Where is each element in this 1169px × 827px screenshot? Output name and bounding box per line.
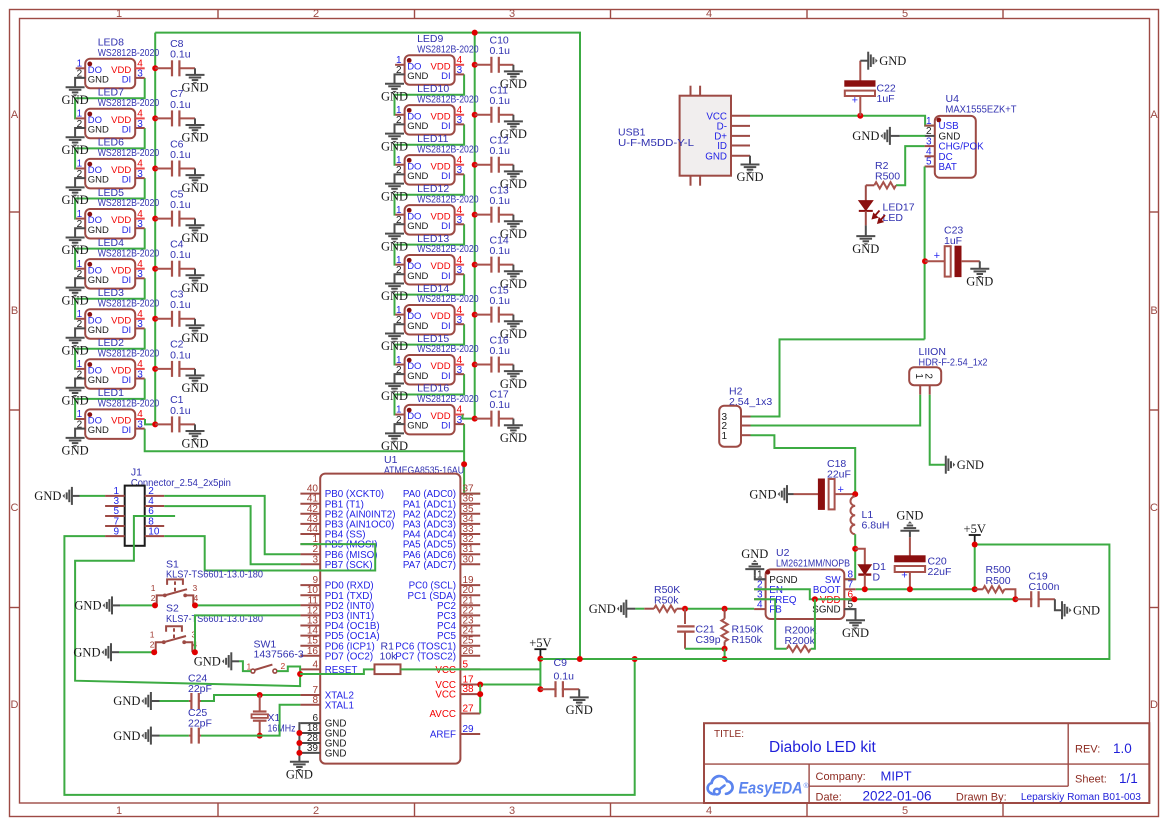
LED LED8 WS2812B-2020 [76,37,160,89]
wire +5V to VCC rows [539,659,541,690]
svg-text:GND: GND [62,444,89,458]
ground for LED17 [865,225,867,236]
junction [472,62,478,68]
ground [113,692,151,710]
svg-text:2: 2 [281,661,286,671]
svg-text:C100n: C100n [1029,581,1060,593]
svg-text:GND: GND [407,421,428,432]
wire VDD top bus [155,33,580,659]
svg-text:GND: GND [407,271,428,282]
junction [472,312,478,318]
svg-text:3: 3 [457,215,463,226]
LED LED14 WS2812B-2020 [395,283,479,335]
wire U1 GND pins to ground [299,723,300,762]
ground [842,620,869,640]
svg-text:1: 1 [913,373,924,379]
LED LED10 WS2812B-2020 [395,83,479,135]
wire pin2 to ground [395,374,405,383]
svg-text:4: 4 [706,805,712,817]
ground [62,338,89,358]
svg-text:A: A [11,109,19,121]
wire gnd to C25 [160,735,189,737]
wire VDD bus middle column [474,33,476,419]
capacitor C9 0.1u [540,657,579,697]
junction [472,416,478,422]
wire cap to ground [194,424,196,431]
ground [500,371,527,391]
svg-text:AVCC: AVCC [430,709,457,720]
wire cap to ground [512,215,514,222]
svg-text:3: 3 [457,65,463,76]
svg-text:DI: DI [122,175,132,186]
junction [152,216,158,222]
ground [741,547,768,576]
wire S2 to PD3 [195,615,301,652]
junction [852,491,858,497]
IC U2 LM2621MM/NOPB [754,547,856,619]
svg-text:0.1u: 0.1u [170,249,191,261]
junction [722,646,728,652]
svg-text:GND: GND [381,289,408,303]
wire R50K to FB [685,608,754,610]
svg-text:GND: GND [381,439,408,453]
capacitor C5 0.1u [155,188,195,226]
junction [722,656,728,662]
ground [500,271,527,291]
svg-text:Date:: Date: [816,791,842,803]
svg-text:GND: GND [381,239,408,253]
junction [151,649,157,655]
svg-text:GND: GND [88,175,109,186]
ground [181,375,208,395]
LED LED16 WS2812B-2020 [395,383,479,435]
svg-text:GND: GND [88,75,109,86]
capacitor C14 0.1u [475,234,514,272]
svg-text:29: 29 [463,724,475,735]
svg-text:WS2812B-2020: WS2812B-2020 [98,147,160,159]
svg-text:2: 2 [313,805,319,817]
diode D1 [855,549,886,590]
svg-text:0.1u: 0.1u [490,145,511,157]
svg-text:6.8uH: 6.8uH [862,520,890,532]
junction [537,656,543,662]
wire C21 bottom [685,648,725,650]
junction [812,596,818,602]
svg-text:+: + [852,95,858,107]
capacitor C7 0.1u [155,88,195,126]
wire DI chain [395,124,465,164]
wire C25 to XTAL1 [201,705,300,736]
svg-text:GND: GND [88,125,109,136]
wire DI chain [395,174,465,214]
IC U4 MAX1555EZK+T [925,93,1017,178]
junction [152,266,158,272]
resistor R2 R500 [866,160,900,189]
svg-text:8: 8 [312,695,318,706]
wire gnd to S1 [120,604,157,606]
ground [181,431,208,451]
svg-text:VCC: VCC [435,690,456,701]
svg-text:DI: DI [441,221,451,232]
svg-text:0.1u: 0.1u [554,671,575,683]
svg-text:WS2812B-2020: WS2812B-2020 [98,97,160,109]
svg-text:DI: DI [441,271,451,282]
svg-text:GND: GND [181,437,208,451]
junction [857,113,863,119]
ground [852,236,879,256]
svg-text:GND: GND [73,645,100,659]
svg-text:3: 3 [137,219,143,230]
svg-text:GND: GND [181,231,208,245]
ground [500,71,527,91]
junction [851,596,857,602]
ground [181,75,208,95]
wire pin2 to ground [395,74,405,83]
svg-text:B: B [1150,305,1157,317]
svg-text:10k: 10k [380,651,398,663]
junction [1012,596,1018,602]
svg-text:0.1u: 0.1u [170,199,191,211]
capacitor C16 0.1u [475,334,514,372]
svg-text:3: 3 [457,315,463,326]
svg-text:3: 3 [137,69,143,80]
junction [296,740,302,746]
wire pin2 to ground [75,228,85,237]
ground for C18 [787,493,794,495]
svg-text:Diabolo LED kit: Diabolo LED kit [769,739,877,756]
ground [194,652,232,670]
svg-text:3: 3 [137,319,143,330]
wire pin2 to ground [395,174,405,183]
ground [381,383,408,403]
svg-text:R500: R500 [986,575,1011,587]
wire +5V loop [540,545,1110,660]
svg-text:3: 3 [137,369,143,380]
wire J1 pin10 to PB5 [164,536,375,570]
ground [566,697,593,717]
svg-text:GND: GND [381,389,408,403]
LED LED6 WS2812B-2020 [76,137,160,189]
ground for C19 [1055,599,1062,610]
svg-text:1437566-3: 1437566-3 [254,649,304,661]
ground [73,643,111,661]
svg-text:D: D [11,699,19,711]
wire RESET net to R1 [300,669,374,674]
connector USB1 U-F-M5DD-Y-L [618,86,750,186]
wire cap to ground [194,369,196,376]
svg-text:U-F-M5DD-Y-L: U-F-M5DD-Y-L [618,137,694,149]
wire U4 CHG to R2 [896,146,925,185]
svg-text:MAX1555EZK+T: MAX1555EZK+T [946,103,1018,115]
junction [577,656,583,662]
ground [589,600,627,618]
ground [500,171,527,191]
svg-text:D: D [873,572,881,584]
ground [381,184,408,204]
junction [152,421,158,427]
ground for C23 [979,261,981,268]
switch S2 KLS7-TS6601-13.0-180 [150,603,263,653]
ground [62,237,89,257]
svg-text:0.1u: 0.1u [490,45,511,57]
junction [922,258,928,264]
wire cap to ground [194,118,196,125]
svg-text:GND: GND [181,181,208,195]
switch body [150,626,198,652]
ground [868,52,906,70]
svg-text:PD7 (OC2): PD7 (OC2) [325,651,373,662]
wire pin2 to ground [395,124,405,133]
IC U1 pins [300,484,480,760]
capacitor C22 1uF polarized [845,61,896,116]
svg-text:WS2812B-2020: WS2812B-2020 [98,47,160,59]
wire DI chain [395,74,465,114]
svg-text:5: 5 [926,157,932,168]
svg-text:10: 10 [148,526,160,537]
svg-text:WS2812B-2020: WS2812B-2020 [98,348,160,360]
ground [181,325,208,345]
svg-text:GND: GND [181,331,208,345]
wire DI chain [395,224,465,264]
wire L1 to SW [844,534,855,579]
svg-text:Connector_2.54_2x5pin: Connector_2.54_2x5pin [131,477,231,489]
inductor L1 6.8uH [850,496,889,534]
wire J1 pin9 to +5V rail [64,536,634,795]
svg-text:WS2812B-2020: WS2812B-2020 [417,393,479,405]
svg-text:0.1u: 0.1u [170,49,191,61]
wire DI chain [75,78,145,119]
svg-text:GND: GND [113,694,140,708]
capacitor C12 0.1u [475,135,514,173]
svg-text:DI: DI [122,275,132,286]
wire R1 to VCC [401,668,541,670]
svg-text:GND: GND [88,275,109,286]
wire VCC17 row [480,684,540,686]
wire cap to ground [512,115,514,122]
wire gnd to J1 pin1 [80,495,106,497]
svg-text:GND: GND [957,458,984,472]
svg-text:GND: GND [741,547,768,561]
svg-text:GND: GND [88,375,109,386]
wire USB GND pin to ground [749,156,751,165]
svg-text:GND: GND [407,221,428,232]
wire LIION pin1 to H2 pin2 [751,395,921,426]
ground for U2 SGND [844,609,855,620]
svg-text:1uF: 1uF [877,93,895,105]
ground [381,84,408,104]
svg-text:DI: DI [441,71,451,82]
svg-text:5: 5 [902,805,908,817]
wire VCC to U4 [750,116,935,126]
wire LED1 DI to PA0 net [145,429,464,452]
junction [257,692,263,698]
ground [749,485,787,503]
svg-text:30: 30 [463,554,475,565]
svg-text:2022-01-06: 2022-01-06 [863,789,932,804]
junction [296,730,302,736]
junction [152,316,158,322]
ground [181,125,208,145]
svg-text:3: 3 [509,8,515,20]
svg-text:GND: GND [181,81,208,95]
junction [152,65,158,71]
connector LIION HDR-F-2.54_1x2 [909,346,987,395]
ground [500,121,527,141]
capacitor C18 22uF polarized [794,458,856,509]
svg-text:GND: GND [407,371,428,382]
wire VDD jog LED1 [145,419,155,424]
svg-text:R150k: R150k [732,634,763,646]
LED LED1 WS2812B-2020 [76,387,160,439]
svg-text:GND: GND [62,93,89,107]
svg-text:1.0: 1.0 [1113,741,1132,756]
svg-text:GND: GND [181,281,208,295]
svg-text:DI: DI [441,321,451,332]
wire gnd to S2 [119,651,156,653]
wire R200K to VDD [811,599,815,649]
wire pin2 to ground [395,324,405,333]
svg-text:0.1u: 0.1u [490,345,511,357]
wire BOOT row [856,588,975,590]
ground [946,456,984,474]
junction [192,602,198,608]
capacitor C10 0.1u [475,35,514,73]
capacitor C4 0.1u [155,239,195,277]
svg-text:4: 4 [194,593,199,603]
svg-text:1: 1 [116,8,122,20]
junction [152,366,158,372]
svg-text:PC7 (TOSC2): PC7 (TOSC2) [395,651,456,662]
wire gnd to C24 [160,700,189,702]
svg-text:GND: GND [842,626,869,640]
svg-text:3: 3 [457,365,463,376]
svg-text:4: 4 [312,659,318,670]
ground [62,137,89,157]
svg-text:GND: GND [34,489,61,503]
capacitor C24 22pF [188,673,212,710]
svg-text:9: 9 [113,526,119,537]
wire pin2 to ground [75,178,85,187]
net +5V [529,636,551,659]
capacitor C19 C100n [1015,571,1059,608]
wire VDD bus left column [154,33,156,425]
svg-text:DI: DI [122,325,132,336]
svg-text:GND: GND [74,599,101,613]
svg-text:Leparskiy Roman B01-003: Leparskiy Roman B01-003 [1021,792,1141,803]
wire cap to ground [512,265,514,272]
LED LED12 WS2812B-2020 [395,183,479,235]
svg-text:GND: GND [407,171,428,182]
svg-text:GND: GND [566,703,593,717]
wire VCC38 to AVCC [479,685,481,714]
svg-text:GND: GND [181,381,208,395]
svg-text:C: C [1150,502,1158,514]
LED LED5 WS2812B-2020 [76,187,160,239]
svg-text:3: 3 [457,115,463,126]
net +5V [964,522,986,545]
connector J1 2.54 2x5 [105,466,231,545]
svg-text:GND: GND [113,729,140,743]
svg-text:+5V: +5V [529,636,551,650]
capacitor C15 0.1u [475,284,514,322]
svg-text:GND: GND [381,139,408,153]
ground [736,164,763,184]
LED LED7 WS2812B-2020 [76,87,160,139]
ground [286,762,313,782]
ground [500,221,527,241]
wire cap to ground [194,269,196,276]
wire BAT to H2 pin3 [751,339,925,416]
wire cap to ground [512,65,514,72]
svg-text:TITLE:: TITLE: [714,729,744,740]
junction [682,606,688,612]
wire J1 pin4 to PB7 [164,506,300,564]
svg-text:GND: GND [407,321,428,332]
ground [62,187,89,207]
wire J1 pin6 to RESET [75,516,300,686]
title block [704,723,1149,804]
capacitor C23 1uF polarized [925,225,980,277]
svg-text:3: 3 [137,419,143,430]
junction [722,606,728,612]
wire DI chain [75,128,145,169]
wire LIION pin2 to ground [930,395,946,465]
LED LED4 WS2812B-2020 [76,237,160,289]
svg-text:16: 16 [307,646,319,657]
capacitor C21 C39p [677,609,721,649]
wire FREQ to R200K [754,599,787,649]
wire pin2 to ground [395,274,405,283]
wire pin2 to ground [75,78,85,87]
wire cap to ground [194,169,196,176]
wire gnd to R50K [635,608,644,610]
ground [74,596,112,614]
ground for U2 PGND [755,576,766,580]
wire cap to ground [512,419,514,426]
crystal X1 16MHz [252,695,296,736]
svg-text:A: A [1150,109,1158,121]
svg-text:LED: LED [883,212,904,224]
svg-text:2: 2 [150,640,155,650]
resistor R500 [975,564,1016,599]
wire pin2 to ground [75,379,85,388]
junction [152,166,158,172]
svg-text:WS2812B-2020: WS2812B-2020 [417,143,479,155]
junction [297,671,303,677]
ground [852,127,890,145]
junction [461,461,467,467]
junction [296,750,302,756]
capacitor C2 0.1u [155,339,195,377]
LED LED13 WS2812B-2020 [395,233,479,285]
wire pin2 to ground [75,429,85,438]
svg-text:22uF: 22uF [928,566,952,578]
svg-text:Drawn By:: Drawn By: [956,791,1007,803]
svg-text:DI: DI [122,225,132,236]
svg-text:0.1u: 0.1u [490,245,511,257]
svg-text:GND: GND [62,394,89,408]
svg-text:0.1u: 0.1u [170,299,191,311]
ground [62,87,89,107]
junction [477,682,483,688]
svg-text:0.1u: 0.1u [170,149,191,161]
wire DI chain [75,178,145,219]
svg-text:DI: DI [441,371,451,382]
svg-text:PB7 (SCK): PB7 (SCK) [325,560,373,571]
svg-text:GND: GND [1073,603,1100,617]
ground [1062,601,1100,619]
junction [472,162,478,168]
